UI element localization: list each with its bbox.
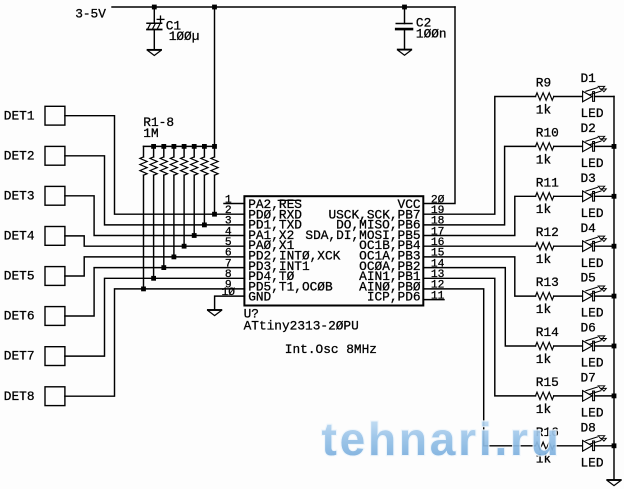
ground under LED rail <box>607 480 620 486</box>
svg-text:1ØØµ: 1ØØµ <box>169 29 200 44</box>
wire LED cathode rail <box>613 97 615 480</box>
resistor R14 1k <box>536 342 554 349</box>
capacitor C1 100u electrolytic <box>147 7 164 49</box>
resistor R15 1k <box>536 392 554 399</box>
wire R1 to pin 9 <box>143 175 145 289</box>
connector DET1 <box>45 106 65 125</box>
svg-text:1k: 1k <box>536 252 552 267</box>
resistor R2 1M <box>153 146 155 157</box>
resistor R16 1k <box>536 442 554 449</box>
junction C2 on rail <box>402 5 407 10</box>
capacitor C2 100n <box>396 7 412 49</box>
junction rail row 4 <box>612 244 617 249</box>
junction R6 top <box>192 144 197 149</box>
wire R9 to LED D1 <box>554 96 583 98</box>
svg-text:19: 19 <box>431 205 445 217</box>
wire R11 to LED D3 <box>554 195 583 197</box>
IC U? ATtiny2313 box <box>244 196 423 305</box>
wire LED D5 to rail <box>595 295 614 297</box>
wire R5 to pin 5 <box>183 175 185 246</box>
wire R14 to LED D6 <box>554 345 583 347</box>
junction rail row 7 <box>612 394 617 399</box>
resistor R7 1M <box>203 146 205 157</box>
svg-text:DET2: DET2 <box>4 148 35 163</box>
resistor R4 1M <box>173 146 175 157</box>
wire LED D2 to rail <box>595 145 614 147</box>
wire R2 to pin 8 <box>153 175 155 278</box>
svg-text:17: 17 <box>431 226 445 238</box>
svg-text:D8: D8 <box>581 420 596 435</box>
svg-text:R13: R13 <box>536 275 559 290</box>
svg-text:LED: LED <box>581 455 604 470</box>
wire VCC drop to pin 20 <box>423 7 455 204</box>
junction R7 top <box>202 144 207 149</box>
wire R7 to pin 3 <box>203 175 205 225</box>
junction R6 on pin 4 line <box>192 233 197 238</box>
svg-text:1k: 1k <box>536 302 552 317</box>
wire feed from rail to R network <box>214 7 216 146</box>
resistor R8 1M <box>214 146 216 157</box>
junction R3 on pin 7 line <box>161 265 166 270</box>
wire LED D1 to rail <box>595 96 614 98</box>
wire pin 15 to row 5 <box>423 257 535 296</box>
junction R4 on pin 6 line <box>172 255 177 260</box>
svg-text:1k: 1k <box>536 202 552 217</box>
svg-text:DET7: DET7 <box>4 349 35 364</box>
ground under pin 10 <box>208 310 221 316</box>
connector DET2 <box>45 146 65 165</box>
wire R3 to pin 7 <box>163 175 165 267</box>
svg-text:R15: R15 <box>536 375 559 390</box>
wire pin 12 to row 8 <box>423 289 535 446</box>
resistor R10 1k <box>536 143 554 150</box>
svg-text:D7: D7 <box>581 371 596 386</box>
wire DET8 to pin 9 <box>65 289 245 396</box>
connector DET8 <box>45 387 65 406</box>
wire pin 13 to row 7 <box>423 278 535 396</box>
junction R8 on pin 2 line <box>212 212 217 217</box>
connector DET6 <box>45 307 65 326</box>
svg-text:LED: LED <box>581 306 604 321</box>
LED D2 <box>583 136 607 151</box>
wire LED D4 to rail <box>595 245 614 247</box>
junction R2 on pin 8 line <box>151 276 156 281</box>
svg-text:DET3: DET3 <box>4 188 35 203</box>
LED D3 <box>583 186 607 201</box>
svg-text:D6: D6 <box>581 321 596 336</box>
junction rail row 5 <box>612 294 617 299</box>
svg-text:LED: LED <box>581 206 604 221</box>
svg-text:LED: LED <box>581 356 604 371</box>
ground under C1 <box>148 50 161 56</box>
svg-text:R9: R9 <box>536 76 551 91</box>
junction R1 on pin 9 line <box>141 287 146 292</box>
junction rail row 2 <box>612 144 617 149</box>
LED D4 <box>583 236 607 251</box>
svg-text:D2: D2 <box>581 121 596 136</box>
resistor R1 1M <box>143 146 145 157</box>
wire R13 to LED D5 <box>554 295 583 297</box>
svg-text:14: 14 <box>431 258 445 270</box>
wire R4 to pin 6 <box>173 175 175 257</box>
junction R5 top <box>182 144 187 149</box>
wire DET2 to pin 3 <box>65 156 245 225</box>
resistor R12 1k <box>536 243 554 250</box>
svg-text:DET8: DET8 <box>4 389 35 404</box>
svg-text:DET6: DET6 <box>4 309 35 324</box>
pin 16 wire straight to R12 row <box>423 245 535 247</box>
svg-text:13: 13 <box>431 269 445 281</box>
svg-text:1k: 1k <box>536 152 552 167</box>
svg-text:11: 11 <box>431 290 445 302</box>
resistor R9 1k <box>536 93 554 100</box>
wire R15 to LED D7 <box>554 395 583 397</box>
resistor R5 1M <box>183 146 185 157</box>
svg-text:3-5V: 3-5V <box>75 6 106 21</box>
wire LED D6 to rail <box>595 345 614 347</box>
svg-text:LED: LED <box>581 156 604 171</box>
junction C1 on rail <box>152 5 157 10</box>
pin 10 GND wire <box>215 296 245 309</box>
wire R10 to LED D2 <box>554 145 583 147</box>
wire pin 19 to row 1 <box>423 97 535 215</box>
junction rail row 6 <box>612 344 617 349</box>
svg-text:D4: D4 <box>581 221 597 236</box>
svg-text:16: 16 <box>431 237 445 249</box>
svg-text:ATtiny2313-2ØPU: ATtiny2313-2ØPU <box>244 319 359 334</box>
resistor R13 1k <box>536 292 554 299</box>
wire LED D3 to rail <box>595 195 614 197</box>
pin 1 stub <box>224 203 244 205</box>
svg-text:15: 15 <box>431 248 445 260</box>
connector DET3 <box>45 186 65 205</box>
wire LED D7 to rail <box>595 395 614 397</box>
connector DET4 <box>45 227 65 246</box>
resistor R11 1k <box>536 193 554 200</box>
wire R16 to LED D8 <box>554 445 583 447</box>
svg-text:R12: R12 <box>536 225 559 240</box>
LED D1 <box>583 86 607 101</box>
wire DET7 to pin 8 <box>65 278 245 356</box>
svg-text:DET5: DET5 <box>4 269 35 284</box>
svg-text:1M: 1M <box>143 126 158 141</box>
wire LED D8 to rail <box>595 445 614 447</box>
svg-text:Int.Osc 8MHz: Int.Osc 8MHz <box>285 342 377 357</box>
resistor R3 1M <box>163 146 165 157</box>
svg-text:D5: D5 <box>581 271 596 286</box>
svg-text:LED: LED <box>581 406 604 421</box>
svg-text:R11: R11 <box>536 175 559 190</box>
junction R7 on pin 3 line <box>202 223 207 228</box>
LED D6 <box>583 336 607 351</box>
svg-text:D1: D1 <box>581 71 597 86</box>
svg-text:1ØØn: 1ØØn <box>416 26 447 41</box>
svg-text:18: 18 <box>431 216 445 228</box>
svg-text:LED: LED <box>581 106 604 121</box>
wire R6 to pin 4 <box>193 175 195 235</box>
wire DET6 to pin 7 <box>65 268 245 316</box>
wire R8 to pin 2 <box>214 175 216 214</box>
svg-text:DET4: DET4 <box>4 229 35 244</box>
wire DET4 to pin 5 <box>65 236 245 246</box>
ground under C2 <box>398 50 411 56</box>
svg-text:DET1: DET1 <box>4 108 35 123</box>
wire R network top bus <box>144 145 215 147</box>
svg-text:tehnari.ru: tehnari.ru <box>322 413 562 465</box>
wire DET1 to pin 2 <box>65 116 245 215</box>
junction rail row 3 <box>612 194 617 199</box>
wire 3-5V power rail <box>112 6 455 8</box>
wire DET3 to pin 4 <box>65 196 245 236</box>
svg-text:R10: R10 <box>536 125 559 140</box>
pin 11 stub <box>423 299 444 301</box>
svg-text:2Ø: 2Ø <box>431 194 445 206</box>
svg-text:12: 12 <box>431 280 445 292</box>
junction R4 top <box>172 144 177 149</box>
connector DET7 <box>45 347 65 366</box>
resistor R6 1M <box>193 146 195 157</box>
junction R3 top <box>161 144 166 149</box>
wire R12 to LED D4 <box>554 245 583 247</box>
svg-text:1Ø: 1Ø <box>222 287 236 299</box>
svg-text:D3: D3 <box>581 171 596 186</box>
svg-text:ICP,PD6: ICP,PD6 <box>367 290 421 305</box>
connector DET5 <box>45 267 65 286</box>
LED D7 <box>583 386 607 401</box>
svg-text:R14: R14 <box>536 325 559 340</box>
svg-text:1k: 1k <box>536 352 552 367</box>
LED D8 <box>583 436 607 451</box>
junction R8 top <box>212 144 217 149</box>
overline on RES (active low) <box>278 199 300 201</box>
svg-text:1k: 1k <box>536 102 552 117</box>
junction R-net feed on rail <box>212 5 217 10</box>
junction rail row 8 <box>612 443 617 448</box>
wire pin 14 to row 6 <box>423 268 535 346</box>
svg-text:GND: GND <box>248 290 271 305</box>
junction R2 top <box>151 144 156 149</box>
junction R5 on pin 5 line <box>182 244 187 249</box>
wire pin 17 to row 3 <box>423 196 535 235</box>
wire DET5 to pin 6 <box>65 257 245 276</box>
LED D5 <box>583 286 607 301</box>
wire pin 18 to row 2 <box>423 146 535 225</box>
svg-text:LED: LED <box>581 256 604 271</box>
